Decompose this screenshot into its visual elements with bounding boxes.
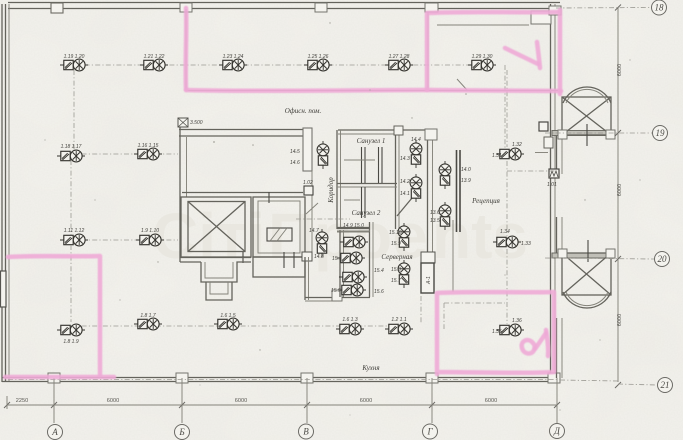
svg-text:1.8 1.9: 1.8 1.9	[63, 339, 79, 345]
svg-text:15.9: 15.9	[391, 241, 401, 247]
socket 14.0/13.9	[439, 161, 451, 189]
svg-text:1.6 1.3: 1.6 1.3	[342, 317, 358, 323]
svg-text:3.500: 3.500	[190, 120, 203, 126]
device near right wall	[549, 169, 559, 178]
corridor door diagonal	[306, 203, 318, 214]
socket 15.5/15.6	[338, 284, 366, 296]
wall top	[8, 2, 560, 4]
closet walls near kitchen cluster	[339, 230, 341, 297]
svg-text:1.35: 1.35	[492, 329, 502, 335]
svg-text:Санузел 2: Санузел 2	[352, 209, 381, 217]
axis circle 21	[658, 378, 673, 393]
pink vertical line	[183, 8, 188, 90]
svg-text:19: 19	[656, 128, 666, 138]
upper elevator	[562, 97, 611, 135]
svg-text:Серверная: Серверная	[381, 253, 412, 261]
bathroom left wall	[336, 130, 338, 229]
svg-text:1.29 1.30: 1.29 1.30	[472, 54, 493, 60]
svg-text:21: 21	[661, 380, 670, 390]
top-right wall niche	[531, 11, 551, 24]
wire row2 dash	[71, 153, 178, 155]
corridor left wall	[311, 171, 313, 255]
svg-text:2250: 2250	[16, 398, 28, 404]
wire row3 dash	[71, 239, 178, 241]
svg-text:18: 18	[655, 3, 665, 13]
door ticks	[268, 192, 270, 203]
axis circles right	[652, 0, 673, 393]
bathroom bottom wall	[337, 228, 370, 230]
elevation mark	[178, 118, 188, 127]
socket 1.19/1.20	[60, 59, 88, 71]
socket 1.18/1.17	[57, 150, 85, 162]
svg-text:15.6: 15.6	[374, 289, 384, 295]
svg-text:А: А	[51, 427, 58, 437]
socket corridor vertical	[317, 141, 329, 169]
svg-text:15.5: 15.5	[331, 288, 341, 294]
svg-text:6000: 6000	[617, 64, 623, 76]
svg-text:1.9 1.10: 1.9 1.10	[141, 228, 159, 234]
right column sockets	[506, 70, 508, 147]
axis circle 20	[655, 252, 670, 267]
panel A-1	[421, 252, 435, 263]
socket 1.27/1.28	[385, 59, 413, 71]
svg-text:1.32: 1.32	[512, 142, 522, 148]
svg-text:15.8: 15.8	[391, 267, 401, 273]
lower elevator	[562, 253, 611, 295]
svg-text:1.11 1.12: 1.11 1.12	[64, 228, 85, 234]
top wall columns	[51, 3, 63, 13]
axis circle B	[175, 425, 190, 440]
svg-text:20: 20	[658, 254, 668, 264]
bathroom right wall	[395, 130, 397, 229]
scan specks	[252, 144, 254, 146]
svg-text:1.36: 1.36	[512, 318, 522, 324]
room below machine room	[253, 257, 305, 277]
svg-text:Сіті: Сіті	[152, 200, 265, 272]
svg-text:1.8 1.7: 1.8 1.7	[140, 313, 156, 319]
wall pier right end	[303, 128, 312, 171]
socket 1.31/1.32	[496, 148, 524, 160]
reception desk bars	[456, 150, 458, 232]
dimension line right	[617, 8, 619, 382]
bathroom mid wall	[337, 183, 397, 185]
svg-text:1.27 1.28: 1.27 1.28	[389, 54, 410, 60]
socket 1.4/1.3	[336, 323, 364, 335]
svg-text:1.34: 1.34	[500, 229, 510, 235]
socket 1.29/1.30	[468, 59, 496, 71]
svg-text:Офисн. пом.: Офисн. пом.	[285, 107, 322, 115]
svg-text:13.6: 13.6	[430, 210, 440, 216]
wall left	[1, 4, 3, 382]
bathroom top wall	[338, 129, 430, 131]
junction box on corner	[302, 252, 312, 261]
svg-text:1.21 1.22: 1.21 1.22	[144, 54, 165, 60]
svg-text:6000: 6000	[235, 398, 247, 404]
svg-text:15.1: 15.1	[332, 256, 342, 262]
wall down from lobby to kitchen	[304, 257, 306, 300]
stair room bottom wall	[182, 192, 303, 194]
row1 dash line	[74, 64, 490, 66]
svg-text:15.4: 15.4	[374, 268, 384, 274]
svg-text:13.9: 13.9	[461, 178, 471, 184]
wire row4 dash	[71, 325, 410, 327]
svg-text:Коридор: Коридор	[327, 177, 335, 204]
svg-text:А-1: А-1	[426, 276, 432, 285]
hatched box	[267, 228, 292, 241]
corridor top wall	[179, 129, 312, 131]
lobby bottom stepped wall	[180, 257, 251, 259]
server room left wall	[369, 222, 371, 297]
svg-text:14.8: 14.8	[314, 254, 324, 260]
device box at pier bottom	[304, 186, 313, 195]
plumbing studs	[361, 147, 363, 183]
reception wall right vertical	[452, 220, 454, 292]
dimension line bottom	[7, 404, 557, 406]
socket 1.6/1.5	[214, 318, 242, 330]
socket 14.7/14.8	[316, 229, 328, 257]
elevator shaft 1 inner with X	[188, 202, 245, 252]
socket 14.2/14.1	[410, 174, 422, 202]
stair left wall	[179, 119, 181, 262]
svg-text:13.5: 13.5	[430, 218, 440, 224]
socket 15.10/15.9	[398, 223, 410, 251]
socket 14.9/15.0	[340, 236, 368, 248]
axis circle 19	[653, 126, 668, 141]
svg-text:1.02: 1.02	[303, 180, 313, 186]
svg-text:1.2 1.1: 1.2 1.1	[391, 317, 407, 323]
socket 1.21/1.22	[140, 59, 168, 71]
axis circle 18	[652, 0, 667, 15]
socket 14.4/14.3	[410, 140, 422, 168]
svg-text:6000: 6000	[360, 398, 372, 404]
door diagonal	[397, 198, 412, 216]
pink box bottom-left	[8, 256, 100, 375]
pink horizontal line	[186, 88, 427, 93]
axis circle G	[423, 424, 438, 439]
machine room right of shaft	[253, 197, 305, 257]
axis circle A	[48, 425, 63, 440]
socket 1.9/1.10	[136, 234, 164, 246]
axis circle V	[299, 424, 314, 439]
socket 1.35/1.36	[496, 324, 524, 336]
svg-text:1.6 1.5: 1.6 1.5	[220, 313, 236, 319]
svg-text:Санузел 1: Санузел 1	[357, 137, 386, 145]
svg-text:14.2: 14.2	[400, 179, 410, 185]
pink numeral 2	[522, 340, 535, 353]
svg-text:1.25 1.26: 1.25 1.26	[308, 54, 329, 60]
wall bottom	[2, 377, 560, 379]
socket 15.8/15.7	[398, 260, 410, 288]
left wall window block	[1, 271, 7, 307]
svg-text:Кухня: Кухня	[361, 364, 379, 372]
svg-text:Рецепция: Рецепция	[471, 197, 500, 205]
svg-text:1.18 1.17: 1.18 1.17	[61, 144, 82, 150]
svg-text:14.9 15.0: 14.9 15.0	[343, 223, 364, 229]
bottom wall columns	[48, 373, 60, 383]
svg-text:15.7: 15.7	[391, 278, 401, 284]
socket 1.2/1.1	[385, 323, 413, 335]
elevator shaft 1 outer	[181, 197, 251, 257]
svg-text:Б: Б	[178, 427, 185, 437]
pink box 2	[437, 292, 554, 374]
wall right	[550, 4, 552, 382]
pink box 1	[427, 12, 558, 90]
svg-text:6000: 6000	[107, 398, 119, 404]
svg-text:14.1: 14.1	[400, 191, 410, 197]
svg-text:14.6: 14.6	[290, 160, 300, 166]
pink numeral 1	[505, 48, 538, 64]
shaft wall bands	[552, 131, 610, 136]
svg-text:14.7: 14.7	[309, 228, 319, 234]
svg-text:В: В	[303, 427, 309, 437]
socket 1.11/1.12	[60, 234, 88, 246]
svg-text:1.31: 1.31	[492, 153, 502, 159]
watermark	[152, 200, 528, 272]
svg-text:6000: 6000	[617, 184, 623, 196]
socket 1.23/1.24	[219, 59, 247, 71]
axis lines bottom	[53, 378, 55, 423]
svg-text:14.3: 14.3	[400, 156, 410, 162]
svg-text:14.5: 14.5	[290, 149, 300, 155]
socket 13.6/13.5	[439, 202, 451, 230]
socket 15.3/15.4	[339, 271, 367, 283]
svg-text:6000: 6000	[485, 398, 497, 404]
axis circle D	[550, 424, 565, 439]
svg-text:1.19 1.20: 1.19 1.20	[64, 54, 85, 60]
door swing in room 1	[457, 79, 467, 90]
svg-text:6000: 6000	[617, 314, 623, 326]
svg-text:1.01: 1.01	[547, 182, 557, 188]
svg-text:1.33: 1.33	[521, 241, 531, 247]
svg-text:15.10: 15.10	[389, 230, 402, 236]
socket 1.33/1.34	[493, 236, 521, 248]
svg-text:Г: Г	[426, 427, 433, 437]
socket 1.25/1.26	[304, 59, 332, 71]
svg-text:14.4: 14.4	[411, 137, 421, 143]
socket 1.16/1.15	[134, 148, 162, 160]
right axis leader lines	[556, 7, 651, 10]
office partition walls under marker	[185, 9, 187, 90]
svg-text:1.23 1.24: 1.23 1.24	[223, 54, 244, 60]
socket 1.8/1.9	[57, 324, 85, 336]
socket 15.1/15.2	[337, 252, 365, 264]
socket 1.8/1.7	[134, 318, 162, 330]
svg-text:1.16 1.15: 1.16 1.15	[138, 143, 159, 149]
ticks	[4, 402, 560, 408]
kitchen top wall	[305, 297, 342, 299]
axis circles bottom	[48, 424, 565, 440]
svg-text:14.0: 14.0	[461, 167, 471, 173]
